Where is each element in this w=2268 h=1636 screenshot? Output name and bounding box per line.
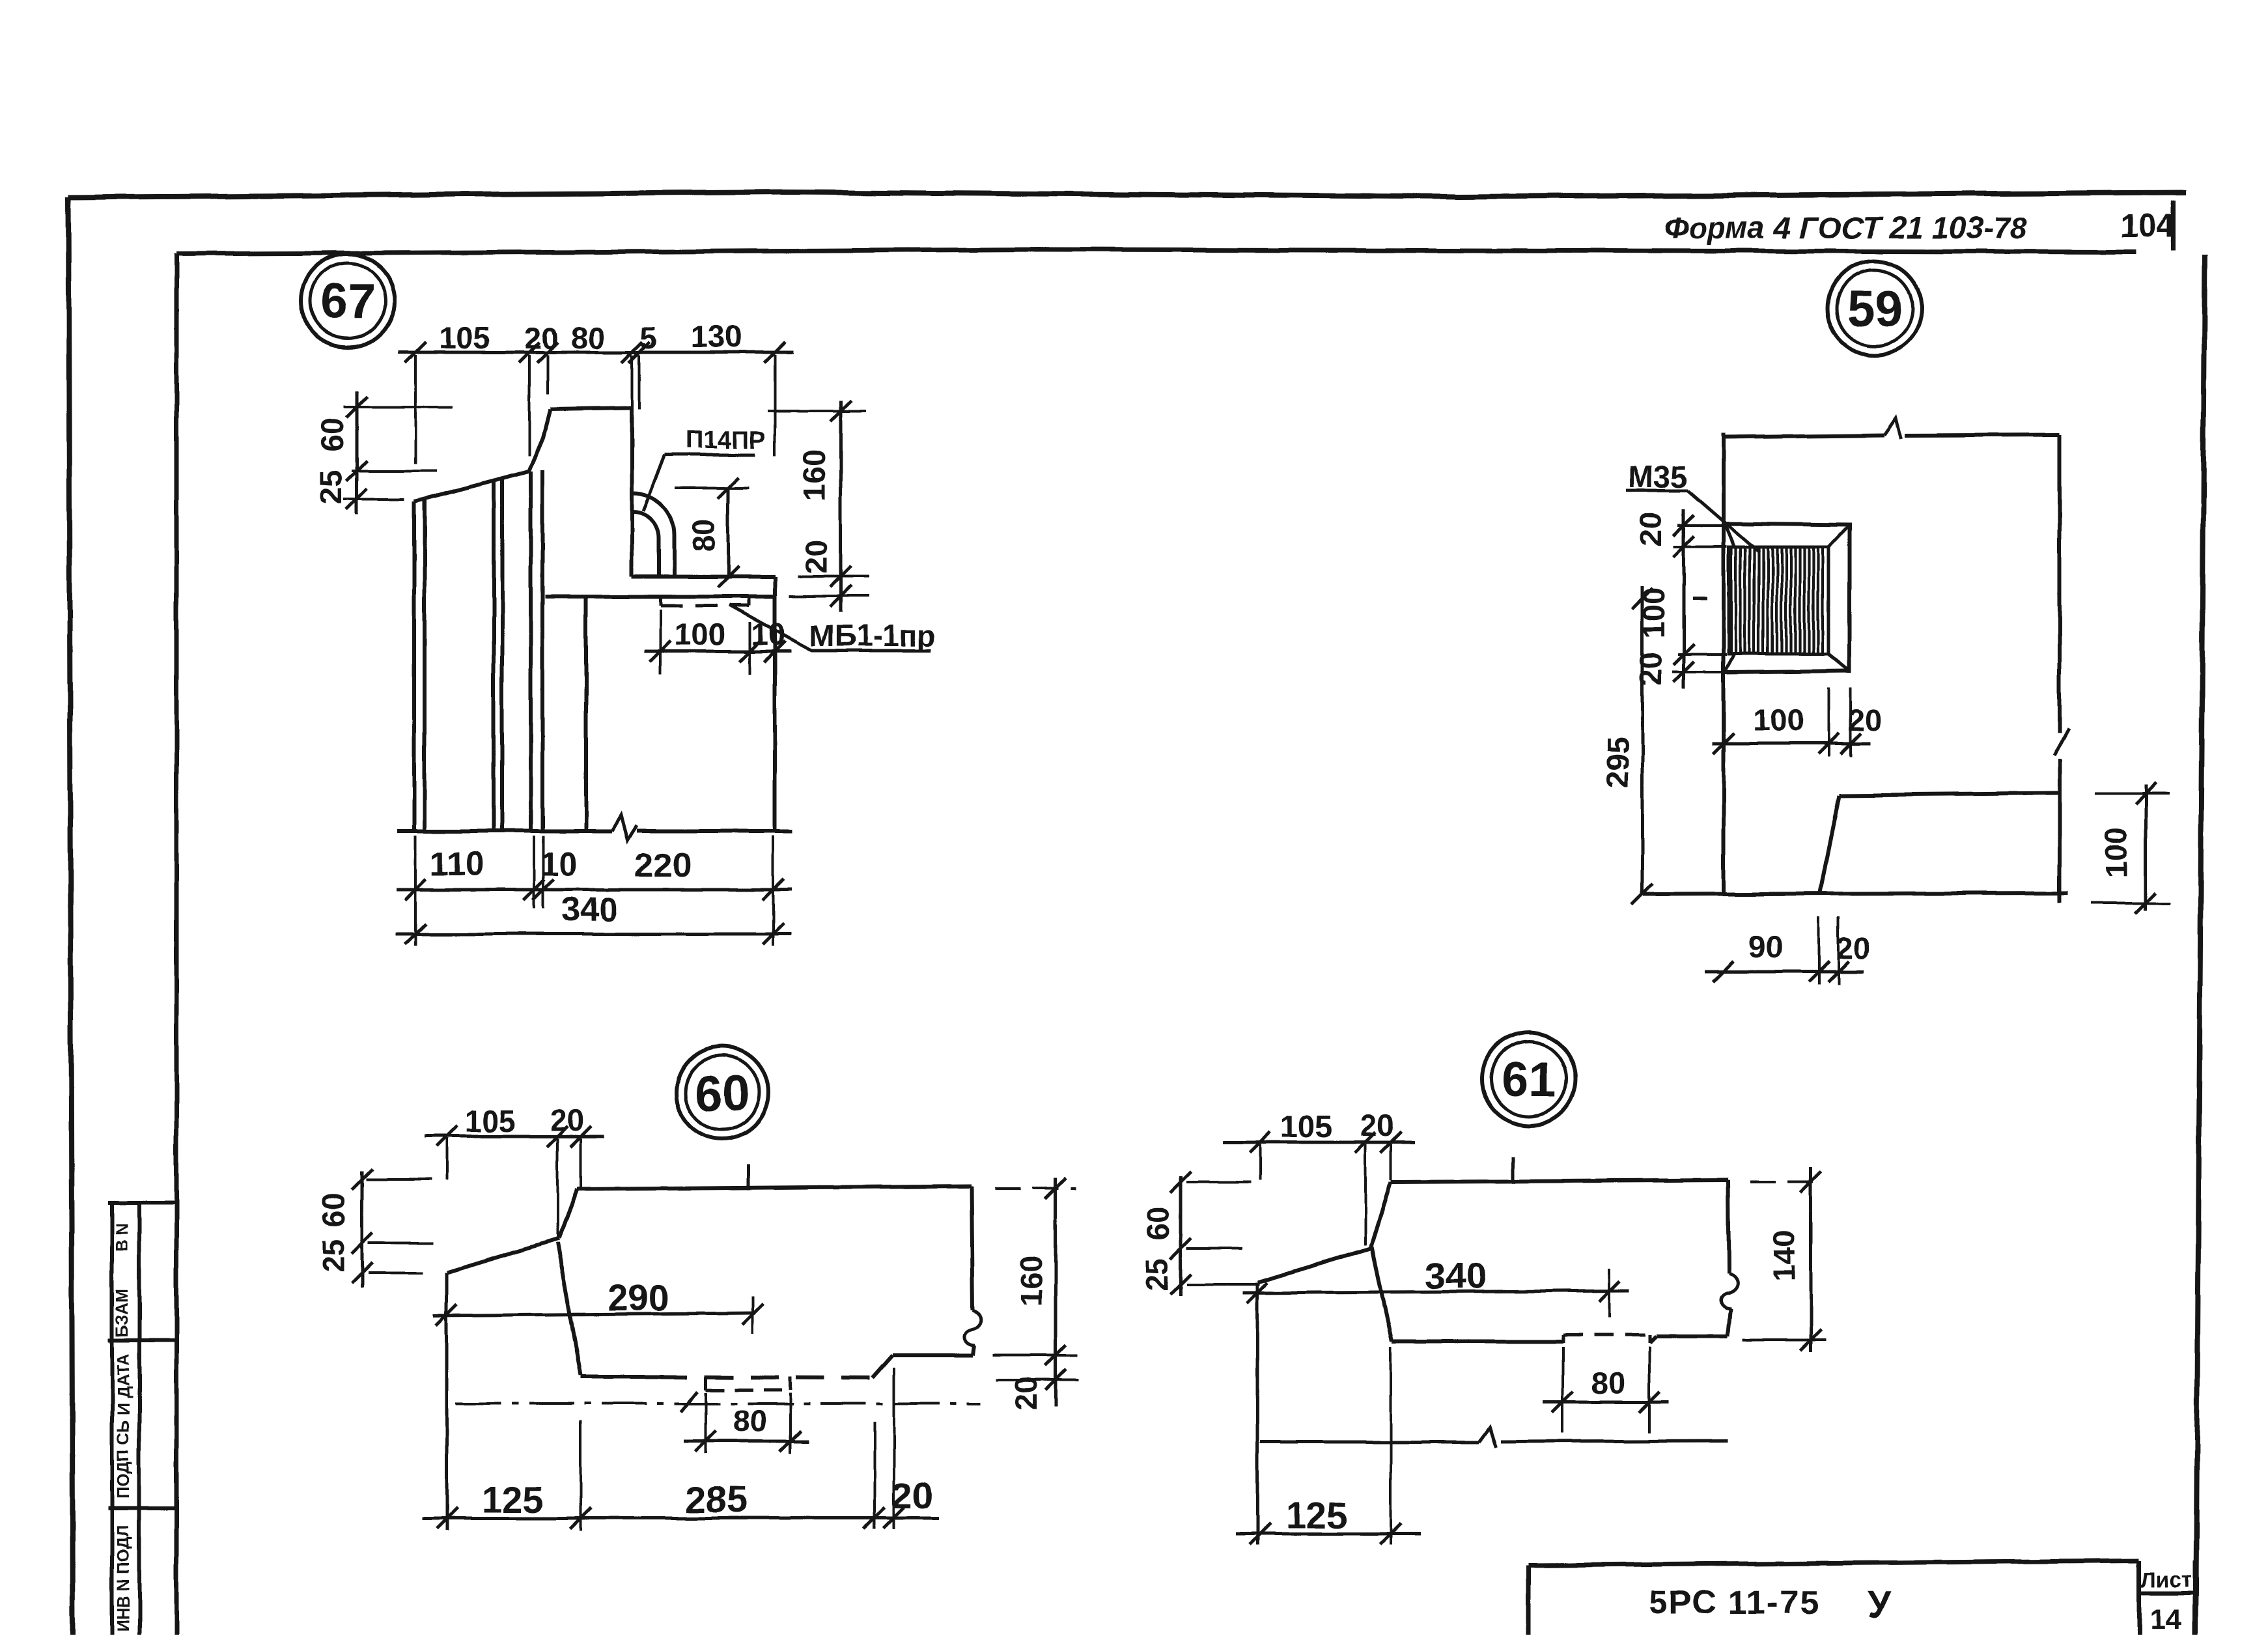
- dim 80 ext right: [1648, 1347, 1651, 1433]
- svg-text:160: 160: [797, 450, 832, 501]
- tick plate 100 bottom: [1673, 644, 1694, 665]
- top edge left part: [1724, 435, 1884, 437]
- tick 25 bottom: [1170, 1274, 1191, 1295]
- svg-text:5: 5: [640, 320, 657, 355]
- svg-text:В N: В N: [112, 1223, 132, 1252]
- svg-text:У: У: [1868, 1584, 1892, 1626]
- tick 60/25: [1170, 1238, 1191, 1259]
- tick 20 right end: [884, 1508, 904, 1529]
- tick 125 right: [1380, 1523, 1401, 1544]
- svg-text:20: 20: [1009, 1376, 1043, 1410]
- wall outer face line 2: [423, 499, 427, 831]
- right dim line 160/20: [1054, 1178, 1057, 1407]
- svg-text:110: 110: [430, 845, 484, 883]
- svg-text:5РС 11-75: 5РС 11-75: [1649, 1584, 1819, 1622]
- reference break squiggle: [1479, 1428, 1496, 1447]
- tick 20 right: [1380, 1132, 1401, 1153]
- sidebar top line: [108, 1200, 176, 1204]
- svg-text:295: 295: [1600, 737, 1634, 787]
- 80 dim extension over corbel: [675, 487, 749, 489]
- corbel inner arc: [633, 512, 659, 576]
- ext 105 left: [445, 1138, 448, 1180]
- panel slope: [447, 1239, 559, 1273]
- panel left slant: [1371, 1182, 1391, 1248]
- extension 5 left: [631, 355, 634, 409]
- tick 60/25: [346, 460, 367, 481]
- svg-text:20: 20: [799, 540, 833, 574]
- plate corner diagonal BR: [1828, 654, 1849, 671]
- dim 80 ext left: [705, 1392, 707, 1454]
- ext 285 right: [873, 1422, 876, 1529]
- extension 5 right: [638, 355, 641, 409]
- Лист box left edge: [2137, 1560, 2142, 1636]
- ext 110 left: [414, 836, 417, 946]
- ext 90/20 a: [1817, 917, 1820, 985]
- bottom dim line 125/285/20: [422, 1517, 939, 1520]
- ext 25 bottom: [368, 1272, 423, 1275]
- tick 105 left: [405, 342, 426, 363]
- svg-text:80: 80: [1591, 1366, 1625, 1400]
- ext 60/25: [368, 1242, 433, 1245]
- centerline dash-dot: [456, 1402, 980, 1405]
- svg-text:20: 20: [525, 320, 559, 355]
- svg-text:340: 340: [1425, 1255, 1487, 1297]
- tick 295 top: [1632, 588, 1653, 609]
- embedded plate МБ1-1пр right end: [748, 597, 751, 606]
- panel right edge upper: [1728, 1180, 1729, 1273]
- tick 105/20: [1355, 1132, 1376, 1153]
- Лист divider: [2139, 1591, 2195, 1595]
- page outer frame top: [68, 192, 2187, 197]
- tick right 100 top: [2135, 783, 2156, 804]
- tick 10/220: [533, 879, 553, 900]
- МБ1-1пр leader from plate: [729, 605, 931, 651]
- extension 130 right: [774, 355, 776, 456]
- svg-text:ПОДП СЬ И ДАТА: ПОДП СЬ И ДАТА: [113, 1353, 133, 1499]
- ground line right: [637, 829, 792, 833]
- ext 20 right: [1390, 1144, 1392, 1180]
- tick 100 left wall: [1713, 733, 1734, 754]
- inner frame top: [176, 249, 2136, 254]
- tick 80/5: [622, 342, 643, 363]
- tick 5/130: [629, 342, 650, 363]
- svg-text:125: 125: [481, 1479, 543, 1521]
- plate corner diagonal TR: [1828, 525, 1849, 547]
- page number tick: [2172, 201, 2176, 251]
- ext right 100 top: [2095, 792, 2170, 795]
- svg-text:90: 90: [1749, 929, 1783, 964]
- left ext 25 bottom: [344, 498, 404, 500]
- tick 160 top: [830, 401, 851, 421]
- right dim 100: [2144, 785, 2148, 910]
- tick 20/80: [537, 342, 558, 363]
- svg-text:125: 125: [1285, 1495, 1347, 1536]
- panel right break 2 squiggle: [1721, 1273, 1737, 1308]
- svg-text:П14ПР: П14ПР: [686, 427, 766, 454]
- tick 10 right: [764, 641, 785, 662]
- tick 80 top: [718, 477, 738, 498]
- top dim chain line: [399, 351, 793, 354]
- panel bottom edge right: [1656, 1334, 1728, 1338]
- ext 110/10 b: [542, 836, 544, 909]
- svg-text:20: 20: [1836, 931, 1870, 965]
- dim 290 line: [434, 1313, 755, 1316]
- svg-text:10: 10: [751, 617, 785, 651]
- plate corner diagonal TL: [1726, 525, 1735, 547]
- panel slope: [1258, 1248, 1371, 1282]
- ground break squiggle: [612, 815, 637, 840]
- view circle 61: [1482, 1032, 1576, 1126]
- svg-text:340: 340: [561, 891, 618, 929]
- panel bottom edge dashed: [659, 1377, 873, 1378]
- bottom dim line 125: [1236, 1532, 1421, 1536]
- tick 100 left: [650, 641, 671, 662]
- svg-text:25: 25: [1140, 1258, 1174, 1291]
- tick right 100 bottom: [2135, 893, 2156, 914]
- tick 60 top: [352, 1169, 372, 1190]
- Лист box right edge: [2193, 1561, 2198, 1636]
- tick 110/10: [524, 879, 544, 900]
- panel bottom edge left: [1392, 1340, 1563, 1344]
- ext 100/10: [749, 622, 751, 674]
- sidebar divider 2: [108, 1506, 176, 1510]
- svg-text:80: 80: [686, 518, 721, 552]
- ext 105/20: [556, 1138, 559, 1237]
- panel steep inner line: [1372, 1247, 1392, 1342]
- panel left slant: [559, 1189, 577, 1239]
- 290 left tick: [436, 1305, 457, 1325]
- svg-text:25: 25: [314, 470, 348, 504]
- svg-text:160: 160: [1014, 1255, 1048, 1306]
- panel bottom step: [1649, 1336, 1656, 1343]
- top dim line 105/20: [1223, 1141, 1414, 1144]
- svg-text:20: 20: [1633, 513, 1668, 546]
- tick 80 right: [1639, 1392, 1660, 1413]
- svg-text:25: 25: [316, 1239, 350, 1273]
- ext 25 bottom: [1186, 1283, 1260, 1286]
- ext 60 top: [366, 1178, 432, 1181]
- tick 340 left: [405, 924, 426, 944]
- ext 20 right: [893, 1368, 895, 1529]
- svg-text:285: 285: [685, 1479, 747, 1521]
- title block top line: [1528, 1560, 2139, 1565]
- tick plate 20 top b: [1673, 536, 1694, 557]
- embedded plate МБ1-1пр left end: [659, 597, 662, 606]
- svg-text:60: 60: [315, 418, 350, 452]
- svg-text:20: 20: [1360, 1108, 1394, 1142]
- extension 105 left: [414, 355, 417, 464]
- tick 105/20: [519, 342, 540, 363]
- tick 20 bottom: [830, 585, 851, 606]
- ext 100/20 b: [1849, 687, 1852, 757]
- right dim line 160/20: [839, 401, 843, 612]
- dim line 340: [396, 933, 791, 936]
- sidebar divider 1: [108, 1338, 176, 1342]
- title block left edge: [1526, 1565, 1531, 1636]
- tick 100/10: [740, 641, 761, 662]
- beam soffit: [545, 595, 775, 599]
- tick 105 left: [436, 1126, 457, 1147]
- ext 105/20: [1364, 1144, 1367, 1245]
- panel center tick: [1511, 1157, 1515, 1183]
- wall top slope: [425, 472, 529, 499]
- right ext soffit: [789, 595, 869, 597]
- tick 80 right: [779, 1431, 800, 1452]
- svg-text:М35: М35: [1628, 459, 1687, 494]
- wall layer line 4: [540, 470, 544, 831]
- cap left face: [529, 409, 550, 472]
- ext 160/20: [992, 1354, 1077, 1357]
- panel center tick: [748, 1164, 751, 1190]
- 295 dim line: [1641, 586, 1644, 894]
- svg-text:100: 100: [2099, 828, 2133, 879]
- sidebar column mid edge: [137, 1202, 141, 1636]
- П14ПР leader: [643, 455, 665, 511]
- M35 leader: [1688, 490, 1759, 552]
- panel left face / extension: [445, 1273, 449, 1530]
- svg-text:60: 60: [316, 1193, 351, 1227]
- panel bottom edge solid: [581, 1375, 659, 1379]
- 340 left tick: [1247, 1282, 1268, 1303]
- dim 80 ext left: [1561, 1347, 1564, 1433]
- ground line: [1644, 893, 2068, 894]
- tick 105/20: [547, 1126, 568, 1147]
- svg-text:20: 20: [891, 1475, 932, 1517]
- long reference line right: [1501, 1441, 1728, 1441]
- svg-text:100: 100: [1753, 703, 1804, 737]
- cap right face: [630, 408, 634, 577]
- plate inner square: [1729, 547, 1828, 654]
- panel right edge upper: [971, 1186, 972, 1310]
- wall layer line 1: [492, 481, 496, 831]
- left dim line 60/25: [356, 391, 359, 515]
- tick 20 bottom: [1045, 1369, 1066, 1390]
- ext 285 left: [580, 1420, 582, 1530]
- ext plate bottom: [1672, 671, 1732, 673]
- svg-text:14: 14: [2150, 1603, 2182, 1635]
- panel right edge lower: [1728, 1308, 1731, 1336]
- dim 100/10 line under ledge: [645, 650, 791, 653]
- ext hatch top: [1673, 545, 1727, 548]
- ext 100 left: [659, 610, 662, 674]
- svg-text:80: 80: [571, 320, 605, 355]
- svg-text:140: 140: [1767, 1230, 1801, 1281]
- svg-text:БЗАМ: БЗАМ: [112, 1288, 132, 1337]
- tick 20 right: [570, 1126, 591, 1147]
- panel right break 2 squiggle: [964, 1310, 981, 1346]
- wall edge vertical: [1722, 433, 1726, 894]
- tick 105 left: [1250, 1132, 1270, 1153]
- tick 90 left: [1713, 961, 1734, 982]
- right dim line 140: [1810, 1167, 1813, 1352]
- view circle 60: [676, 1047, 768, 1139]
- view circle 67: [301, 254, 395, 348]
- left ext 60/25: [352, 470, 436, 472]
- dim 80 line: [1543, 1401, 1668, 1404]
- svg-text:20: 20: [1633, 652, 1668, 686]
- beam right face: [773, 577, 777, 831]
- 340 right tick slash: [1599, 1281, 1620, 1302]
- svg-text:Форма 4 ГОСТ 21 103-78: Форма 4 ГОСТ 21 103-78: [1664, 210, 2028, 245]
- corbel outer arc: [633, 493, 675, 576]
- tick 25 bottom: [346, 488, 367, 509]
- tick 130 right: [764, 342, 785, 363]
- dim 340 line: [1242, 1291, 1629, 1293]
- svg-text:67: 67: [320, 274, 376, 330]
- plate end left: [1561, 1335, 1565, 1343]
- tick 295 bottom: [1632, 884, 1653, 905]
- 80 dim line vertical: [727, 488, 730, 577]
- right edge upper: [2058, 435, 2062, 733]
- dim 100/20 below plate: [1713, 742, 1870, 746]
- left dim line 60/25: [361, 1171, 364, 1288]
- M35 underline: [1626, 489, 1688, 492]
- left dim line of plate: [1683, 509, 1686, 689]
- long reference line left: [1260, 1441, 1479, 1444]
- page outer frame right: [2196, 254, 2205, 1636]
- 290 right tick bar: [751, 1296, 754, 1334]
- tick 60 top: [1170, 1172, 1191, 1192]
- tick 285/20: [864, 1508, 885, 1529]
- ext 125 right: [1390, 1347, 1392, 1545]
- ext 20 right: [580, 1138, 582, 1188]
- dim 90/20: [1705, 970, 1864, 974]
- bottom dim line 110/10/220: [396, 888, 791, 892]
- plate hatching: [1731, 548, 1823, 653]
- tick 110 left: [405, 879, 426, 900]
- left ext 60 top: [344, 406, 453, 408]
- tick 25 bottom: [352, 1263, 372, 1284]
- tick 125 left: [1250, 1523, 1270, 1544]
- svg-text:290: 290: [607, 1277, 669, 1319]
- tick 220 right: [763, 879, 783, 900]
- 340 right tick bar: [1608, 1268, 1611, 1318]
- tick 90/20: [1808, 961, 1829, 982]
- svg-text:104: 104: [2120, 208, 2175, 244]
- ext 90/20 b: [1837, 917, 1840, 985]
- ext 160 top: [995, 1187, 1076, 1190]
- tick 80 left: [695, 1431, 716, 1452]
- lower panel top edge: [1840, 793, 2060, 795]
- svg-text:105: 105: [1281, 1109, 1332, 1144]
- panel right edge lower: [973, 1346, 974, 1355]
- tick 60 top: [346, 397, 367, 417]
- svg-text:59: 59: [1847, 281, 1903, 337]
- top dim line 105/20: [425, 1135, 604, 1138]
- plate dashed line: [1563, 1334, 1649, 1337]
- extension 20 right: [546, 355, 549, 394]
- tick 60/25: [352, 1233, 372, 1254]
- svg-text:80: 80: [733, 1403, 767, 1438]
- lower panel slant: [1820, 795, 1840, 894]
- ext plate top: [1678, 524, 1730, 527]
- ext 60/25: [1186, 1247, 1242, 1250]
- П14ПР underline: [665, 453, 755, 457]
- top edge break V: [1884, 418, 1901, 439]
- inner frame left: [175, 254, 179, 1636]
- tick 20 right: [1828, 961, 1849, 982]
- dim 80 ext right: [789, 1392, 791, 1454]
- tick plate 20 top a: [1673, 515, 1694, 536]
- left dim line 60/25: [1179, 1176, 1183, 1296]
- page outer frame left: [68, 197, 73, 1636]
- 295 center dash: [1693, 597, 1707, 600]
- panel bottom right edge: [893, 1353, 973, 1357]
- svg-text:Лист: Лист: [2141, 1568, 2192, 1592]
- plate end left: [705, 1377, 708, 1390]
- panel steep inner line: [557, 1243, 581, 1375]
- centerline break slash: [681, 1391, 698, 1412]
- panel left face / extension: [1256, 1282, 1259, 1545]
- extension 20 left: [528, 355, 531, 456]
- ext 140 top: [1750, 1181, 1825, 1183]
- tick 80 left: [1552, 1392, 1573, 1413]
- svg-text:105: 105: [439, 320, 490, 355]
- tick 140 top: [1800, 1172, 1821, 1192]
- tick plate 20 bottom: [1673, 662, 1694, 683]
- svg-text:60: 60: [695, 1066, 750, 1121]
- svg-text:ИНВ N ПОДЛ: ИНВ N ПОДЛ: [113, 1525, 133, 1633]
- svg-text:130: 130: [692, 319, 742, 354]
- svg-text:20: 20: [550, 1103, 584, 1137]
- wall outer face line 1: [412, 501, 416, 831]
- tick 100/20: [1818, 733, 1839, 754]
- wall inner face below beam: [584, 597, 588, 831]
- panel top edge: [1391, 1180, 1728, 1182]
- tick 125/285: [570, 1508, 591, 1529]
- svg-text:220: 220: [635, 847, 692, 884]
- right ext ledge: [798, 575, 869, 578]
- ground line left: [397, 829, 612, 833]
- embedded plate dashed bottom: [660, 604, 749, 608]
- tick 160/20: [1045, 1345, 1066, 1366]
- panel top edge: [577, 1186, 971, 1189]
- plate dashed bottom: [706, 1389, 790, 1392]
- plate end right: [1648, 1335, 1651, 1343]
- sidebar column left edge: [110, 1202, 114, 1636]
- plate outer square: [1724, 524, 1849, 672]
- 290 right tick slash: [742, 1304, 763, 1325]
- ext hatch bottom: [1678, 653, 1727, 656]
- svg-text:105: 105: [465, 1104, 516, 1138]
- tick 140 bottom: [1800, 1330, 1821, 1351]
- svg-text:100: 100: [675, 617, 725, 651]
- tick 160 top: [1045, 1178, 1066, 1199]
- tick 80 bottom: [718, 567, 738, 587]
- wall layer line 2: [500, 478, 504, 831]
- ext 60 top: [1186, 1181, 1251, 1183]
- wall top corner: [414, 499, 425, 501]
- ext 110/10 a: [533, 836, 535, 909]
- panel step slant: [873, 1355, 893, 1378]
- cap top edge: [550, 408, 632, 409]
- svg-text:60: 60: [1141, 1206, 1175, 1240]
- svg-text:10: 10: [540, 845, 578, 883]
- tick 340 right: [763, 924, 783, 944]
- plate end right: [789, 1377, 792, 1390]
- plate corner diagonal BL: [1726, 654, 1735, 671]
- tick 20 right: [1840, 733, 1861, 754]
- top edge right part: [1905, 435, 2060, 436]
- tick 125 left: [436, 1508, 457, 1529]
- svg-text:61: 61: [1502, 1052, 1557, 1108]
- view circle 59: [1828, 261, 1922, 355]
- right ext top: [768, 410, 866, 412]
- wall layer line 3: [529, 472, 533, 831]
- svg-text:20: 20: [1848, 703, 1882, 737]
- ext 105 left: [1259, 1144, 1261, 1180]
- svg-text:МБ1-1пр: МБ1-1пр: [809, 619, 936, 653]
